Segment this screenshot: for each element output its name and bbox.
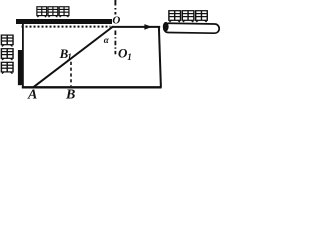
svg-text:A: A bbox=[27, 88, 37, 101]
svg-text:1: 1 bbox=[67, 52, 72, 62]
svg-text:α: α bbox=[104, 35, 110, 45]
svg-text:O: O bbox=[112, 14, 120, 26]
svg-text:B: B bbox=[65, 88, 75, 101]
svg-text:1: 1 bbox=[127, 52, 132, 62]
